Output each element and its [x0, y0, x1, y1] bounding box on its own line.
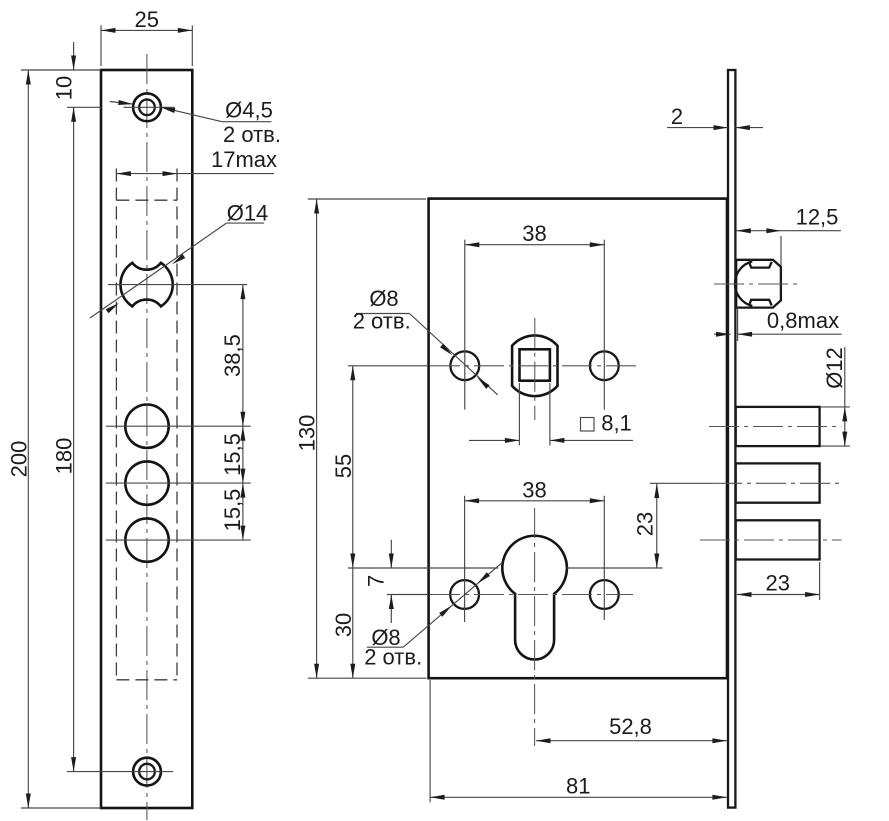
svg-text:38: 38: [522, 221, 546, 246]
svg-text:52,8: 52,8: [609, 714, 652, 739]
svg-text:8,1: 8,1: [601, 411, 632, 436]
svg-text:30: 30: [331, 613, 356, 637]
svg-text:10: 10: [52, 76, 77, 100]
svg-text:81: 81: [566, 774, 590, 799]
svg-text:25: 25: [134, 7, 158, 32]
svg-text:17max: 17max: [211, 147, 277, 172]
svg-text:0,8max: 0,8max: [767, 308, 839, 333]
svg-text:12,5: 12,5: [796, 205, 839, 230]
svg-text:15,5: 15,5: [220, 433, 245, 476]
svg-text:38,5: 38,5: [220, 334, 245, 377]
svg-text:55: 55: [331, 454, 356, 478]
svg-text:Ø4,5: Ø4,5: [225, 98, 273, 123]
svg-text:200: 200: [7, 441, 32, 478]
svg-text:2 отв.: 2 отв.: [353, 309, 411, 334]
svg-text:15,5: 15,5: [220, 489, 245, 532]
svg-text:2 отв.: 2 отв.: [364, 645, 422, 670]
svg-text:180: 180: [52, 438, 77, 475]
svg-text:Ø8: Ø8: [369, 286, 398, 311]
svg-text:23: 23: [633, 512, 658, 536]
svg-text:130: 130: [295, 415, 320, 452]
svg-text:2 отв.: 2 отв.: [223, 122, 281, 147]
svg-text:7: 7: [364, 575, 389, 587]
svg-text:23: 23: [765, 570, 789, 595]
svg-text:Ø14: Ø14: [227, 201, 269, 226]
svg-text:2: 2: [671, 104, 683, 129]
svg-text:38: 38: [522, 477, 546, 502]
svg-text:Ø12: Ø12: [822, 347, 847, 389]
